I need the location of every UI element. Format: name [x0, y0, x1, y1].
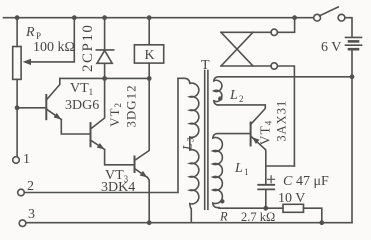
svg-text:L: L	[234, 161, 243, 176]
svg-text:VT1: VT1	[70, 81, 93, 97]
svg-text:2.7 kΩ: 2.7 kΩ	[241, 210, 275, 224]
svg-text:3DG12: 3DG12	[123, 84, 138, 127]
svg-text:2CP10: 2CP10	[80, 24, 96, 72]
svg-text:K: K	[145, 48, 155, 63]
svg-text:3: 3	[28, 207, 35, 222]
svg-text:C: C	[283, 174, 293, 189]
svg-text:L: L	[229, 88, 238, 103]
svg-text:L3: L3	[179, 136, 195, 151]
svg-text:2: 2	[27, 179, 34, 194]
svg-text:10 V: 10 V	[278, 191, 305, 206]
svg-text:100 kΩ: 100 kΩ	[33, 40, 75, 55]
svg-text:R: R	[25, 25, 35, 40]
svg-text:2: 2	[239, 94, 244, 104]
svg-text:R: R	[219, 210, 228, 224]
svg-text:3DK4: 3DK4	[101, 180, 135, 195]
svg-text:3AX31: 3AX31	[274, 100, 288, 142]
svg-text:T: T	[201, 58, 210, 73]
svg-text:VT4: VT4	[258, 120, 274, 146]
svg-text:1: 1	[244, 167, 249, 177]
svg-text:1: 1	[23, 152, 30, 167]
svg-text:VT2: VT2	[107, 102, 123, 127]
svg-text:47 μF: 47 μF	[296, 174, 329, 189]
svg-text:3DG6: 3DG6	[65, 98, 99, 113]
svg-text:6 V: 6 V	[321, 40, 341, 55]
